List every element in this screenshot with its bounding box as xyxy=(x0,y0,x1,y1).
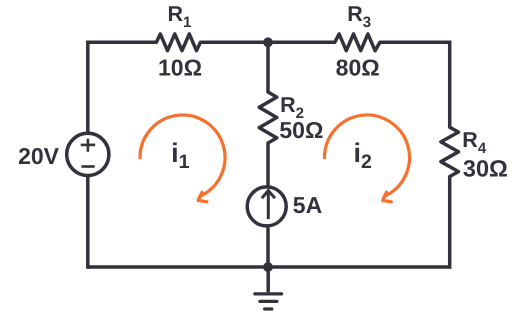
svg-text:R4: R4 xyxy=(462,128,487,157)
svg-text:R3: R3 xyxy=(347,2,371,31)
svg-text:30Ω: 30Ω xyxy=(463,155,508,181)
svg-text:10Ω: 10Ω xyxy=(158,54,202,80)
svg-text:i2: i2 xyxy=(354,138,373,173)
svg-text:20V: 20V xyxy=(18,143,60,169)
svg-text:R1: R1 xyxy=(168,2,192,31)
svg-text:80Ω: 80Ω xyxy=(336,54,380,80)
svg-text:5A: 5A xyxy=(293,192,322,218)
svg-text:i1: i1 xyxy=(171,138,190,173)
svg-text:50Ω: 50Ω xyxy=(279,117,323,143)
